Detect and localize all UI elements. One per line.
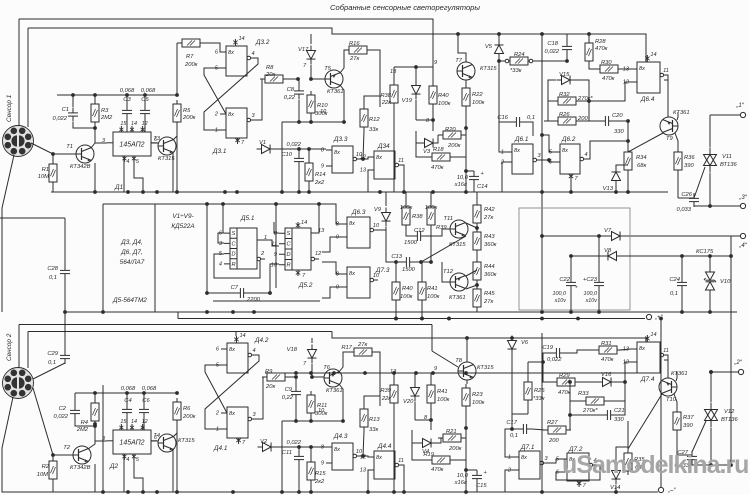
gate D7.3 bbox=[336, 267, 390, 298]
junction bbox=[680, 310, 684, 314]
junction bbox=[175, 93, 179, 97]
svg-text:х16в: х16в bbox=[454, 182, 467, 188]
wire bbox=[627, 174, 629, 192]
svg-text:0,22: 0,22 bbox=[284, 95, 296, 101]
wire bbox=[126, 393, 128, 405]
svg-text:КТ361: КТ361 bbox=[449, 295, 466, 301]
svg-text:14: 14 bbox=[131, 419, 137, 425]
wire bbox=[176, 424, 178, 492]
svg-text:8х: 8х bbox=[229, 411, 235, 417]
svg-text:10М: 10М bbox=[37, 472, 48, 478]
capacitor C21 bbox=[602, 408, 625, 423]
wire bbox=[364, 396, 380, 405]
wire bbox=[710, 428, 712, 465]
capacitor C22 bbox=[553, 277, 579, 304]
resistor R34 bbox=[624, 148, 647, 174]
svg-text:10: 10 bbox=[318, 408, 325, 414]
svg-text:8х: 8х bbox=[639, 346, 645, 352]
svg-text:Д4.1: Д4.1 bbox=[213, 445, 228, 452]
junction bbox=[414, 371, 418, 375]
svg-text:200к: 200к bbox=[182, 414, 196, 420]
svg-text:Т11: Т11 bbox=[443, 216, 453, 222]
wire bbox=[575, 80, 589, 101]
svg-text:V11: V11 bbox=[722, 154, 732, 160]
junction bbox=[540, 234, 544, 238]
terminal minus bbox=[658, 487, 676, 494]
svg-text:22к: 22к bbox=[381, 396, 391, 402]
junction bbox=[63, 310, 67, 314]
svg-text:14: 14 bbox=[239, 333, 245, 339]
wire bbox=[709, 173, 711, 206]
svg-text:Сенсор 1: Сенсор 1 bbox=[6, 94, 13, 122]
diode V1 bbox=[257, 140, 276, 154]
svg-text:С4: С4 bbox=[124, 398, 131, 404]
svg-text:С14: С14 bbox=[477, 184, 488, 190]
wire bbox=[442, 262, 450, 282]
junction bbox=[294, 375, 298, 379]
wire bbox=[395, 304, 397, 319]
junction bbox=[309, 445, 313, 449]
svg-text:470к: 470к bbox=[431, 467, 444, 473]
svg-text:8х: 8х bbox=[562, 148, 568, 154]
wire bbox=[426, 229, 450, 236]
svg-text:100к: 100к bbox=[472, 100, 485, 106]
wire bbox=[394, 66, 433, 68]
wire bbox=[569, 415, 571, 430]
junction bbox=[205, 291, 209, 295]
wire bbox=[64, 279, 66, 312]
wire bbox=[393, 107, 395, 192]
wire bbox=[621, 255, 731, 257]
svg-text:„1“: „1“ bbox=[735, 103, 744, 109]
junction bbox=[274, 202, 278, 206]
wire bbox=[339, 352, 349, 372]
svg-text:V20: V20 bbox=[403, 399, 414, 405]
transistor T5 bbox=[324, 66, 343, 95]
resistor R7 bbox=[177, 39, 205, 68]
sensor E2 bbox=[3, 368, 34, 399]
diode V16 bbox=[598, 372, 617, 387]
wire bbox=[0, 217, 65, 219]
wire bbox=[466, 285, 477, 289]
junction bbox=[510, 336, 514, 340]
svg-text:КТ315: КТ315 bbox=[477, 365, 494, 371]
terminal plus bbox=[646, 314, 663, 321]
svg-text:20к: 20к bbox=[265, 384, 275, 390]
wire bbox=[692, 462, 731, 465]
wire bbox=[257, 240, 279, 246]
svg-text:100к: 100к bbox=[438, 101, 451, 107]
svg-text:S: S bbox=[287, 231, 291, 237]
wire bbox=[103, 203, 319, 205]
svg-text:100к: 100к bbox=[400, 205, 413, 211]
resistor R17 bbox=[341, 342, 377, 356]
svg-text:4: 4 bbox=[584, 152, 587, 158]
wire bbox=[274, 222, 279, 233]
svg-text:10М: 10М bbox=[38, 174, 49, 180]
wire bbox=[430, 192, 432, 203]
wire bbox=[667, 80, 669, 117]
junction bbox=[447, 317, 451, 321]
svg-text:V13: V13 bbox=[603, 186, 614, 192]
diode V14 bbox=[610, 466, 621, 492]
junction bbox=[126, 490, 130, 494]
wire bbox=[18, 325, 20, 369]
capacitor C24 bbox=[669, 277, 687, 297]
junction bbox=[394, 317, 398, 321]
junction bbox=[366, 490, 370, 494]
svg-text:145АП2: 145АП2 bbox=[119, 440, 144, 447]
svg-text:R22: R22 bbox=[472, 92, 483, 98]
junction bbox=[709, 370, 713, 374]
resistor R39b bbox=[380, 381, 398, 407]
wire bbox=[28, 28, 646, 62]
wire bbox=[249, 292, 270, 294]
svg-text:R9: R9 bbox=[265, 369, 273, 375]
svg-text:0,022: 0,022 bbox=[52, 116, 67, 122]
wire bbox=[308, 185, 310, 192]
junction bbox=[464, 490, 468, 494]
wire bbox=[598, 291, 600, 312]
wire bbox=[53, 454, 76, 456]
wire bbox=[426, 229, 431, 236]
wire bbox=[27, 28, 29, 127]
junction bbox=[541, 360, 545, 364]
junction bbox=[101, 490, 105, 494]
wire bbox=[368, 170, 374, 192]
svg-text:200к: 200к bbox=[448, 446, 462, 452]
wire bbox=[505, 470, 513, 492]
svg-text:V6: V6 bbox=[521, 340, 529, 346]
wire bbox=[285, 376, 296, 378]
wire bbox=[405, 192, 407, 203]
wire bbox=[627, 121, 629, 152]
wire bbox=[31, 143, 80, 154]
svg-text:1500: 1500 bbox=[402, 267, 416, 273]
svg-text:КТ361: КТ361 bbox=[326, 388, 343, 394]
junction bbox=[708, 204, 712, 208]
chip D1 145АП2 bbox=[102, 121, 157, 191]
wire bbox=[416, 143, 427, 157]
svg-text:100к: 100к bbox=[400, 294, 413, 300]
wire bbox=[173, 128, 177, 140]
svg-text:14: 14 bbox=[301, 220, 307, 226]
svg-text:R27: R27 bbox=[547, 420, 558, 426]
resistor R4 bbox=[76, 399, 99, 433]
svg-text:100к: 100к bbox=[472, 400, 485, 406]
junction bbox=[680, 254, 684, 258]
svg-text:10,0: 10,0 bbox=[457, 473, 469, 479]
capacitor C29 bbox=[47, 350, 70, 366]
wire bbox=[178, 318, 645, 320]
svg-text:2к2: 2к2 bbox=[314, 479, 325, 485]
wire bbox=[19, 19, 433, 67]
capacitor C23 bbox=[583, 277, 604, 304]
wire node line bbox=[276, 446, 326, 448]
wire bbox=[102, 385, 104, 492]
junction bbox=[309, 77, 313, 81]
capacitor C11 bbox=[282, 440, 304, 465]
resistor R40b bbox=[392, 278, 413, 304]
svg-text:R8: R8 bbox=[266, 65, 274, 71]
junction bbox=[309, 371, 313, 375]
wire bbox=[393, 373, 395, 381]
gate D4.1 bbox=[213, 407, 256, 452]
wire bbox=[298, 447, 300, 451]
svg-text:R20: R20 bbox=[445, 127, 456, 133]
wire bbox=[74, 393, 76, 405]
wire bbox=[126, 418, 128, 430]
wire bbox=[172, 152, 174, 192]
svg-text:Т8: Т8 bbox=[455, 358, 463, 364]
wire bbox=[295, 400, 297, 421]
junction bbox=[431, 371, 435, 375]
wire bbox=[91, 128, 95, 148]
wire bbox=[256, 377, 263, 419]
wire bbox=[616, 165, 628, 171]
junction bbox=[307, 147, 311, 151]
svg-text:Д6.3: Д6.3 bbox=[351, 209, 366, 216]
wire bbox=[416, 120, 433, 131]
svg-text:R40: R40 bbox=[438, 93, 449, 99]
svg-text:R4: R4 bbox=[81, 420, 88, 426]
svg-text:0,022: 0,022 bbox=[53, 414, 68, 420]
junction bbox=[729, 254, 733, 258]
svg-text:27к: 27к bbox=[357, 342, 367, 348]
wire bbox=[476, 284, 478, 285]
wire bbox=[377, 352, 380, 406]
wire bbox=[581, 120, 600, 122]
resistor R30 bbox=[595, 60, 623, 82]
svg-text:Д6.1: Д6.1 bbox=[514, 136, 529, 143]
junction bbox=[143, 93, 147, 97]
wire bbox=[709, 256, 711, 272]
wire bbox=[415, 67, 417, 85]
svg-text:C24: C24 bbox=[669, 277, 680, 283]
resistor R38b bbox=[400, 203, 424, 229]
svg-text:V1÷V9-: V1÷V9- bbox=[172, 213, 193, 220]
resistor R9 bbox=[262, 369, 290, 390]
junction bbox=[126, 190, 130, 194]
wire bbox=[281, 122, 283, 192]
svg-text:0,1: 0,1 bbox=[49, 275, 57, 281]
svg-text:КС175: КС175 bbox=[696, 249, 714, 255]
svg-text:Д3.3: Д3.3 bbox=[333, 136, 348, 143]
svg-text:V12: V12 bbox=[724, 409, 735, 415]
svg-text:100к: 100к bbox=[425, 205, 438, 211]
wire bbox=[94, 126, 96, 128]
resistor R41c bbox=[427, 381, 450, 407]
transistor T8 bbox=[455, 358, 494, 380]
wire bbox=[598, 236, 600, 277]
junction bbox=[626, 139, 630, 143]
svg-text:КТ342В: КТ342В bbox=[70, 465, 91, 471]
gate D7.2 bbox=[556, 446, 597, 489]
svg-text:Д2: Д2 bbox=[109, 463, 118, 470]
capacitor C17 bbox=[506, 420, 532, 439]
svg-text:11: 11 bbox=[663, 68, 669, 74]
wire bbox=[64, 312, 66, 350]
resistor R16 bbox=[344, 41, 372, 62]
wire bbox=[218, 233, 224, 243]
wire bbox=[123, 454, 125, 492]
wire bbox=[265, 372, 640, 374]
svg-text:8х: 8х bbox=[376, 455, 382, 461]
junction bbox=[709, 370, 713, 374]
wire bbox=[709, 290, 711, 312]
svg-text:13: 13 bbox=[623, 67, 630, 73]
wire bbox=[505, 429, 513, 457]
flip-flop D5.2 bbox=[271, 220, 325, 289]
svg-text:R41: R41 bbox=[427, 286, 438, 292]
svg-text:Д4.4: Д4.4 bbox=[377, 443, 392, 450]
transistor T7 bbox=[455, 58, 497, 80]
resistor R40 bbox=[429, 82, 451, 108]
wire node line bbox=[275, 148, 326, 150]
wire bbox=[432, 351, 458, 367]
svg-text:V3: V3 bbox=[423, 149, 431, 155]
junction bbox=[587, 32, 591, 36]
wire bbox=[436, 438, 441, 443]
wire bbox=[298, 167, 300, 192]
svg-text:R29: R29 bbox=[559, 373, 570, 379]
svg-text:„–“: „–“ bbox=[667, 488, 676, 494]
terminal 1 bbox=[735, 103, 745, 118]
wire bbox=[94, 163, 96, 192]
wire bbox=[432, 108, 434, 120]
wire bbox=[368, 470, 374, 492]
wire bbox=[310, 65, 312, 79]
power unit box bbox=[519, 208, 630, 310]
svg-text:4: 4 bbox=[251, 51, 254, 57]
junction bbox=[175, 190, 179, 194]
junction bbox=[626, 119, 630, 123]
svg-text:2М2: 2М2 bbox=[76, 427, 89, 433]
wire bbox=[298, 79, 300, 86]
junction bbox=[297, 190, 301, 194]
svg-text:КТ361: КТ361 bbox=[671, 371, 688, 377]
wire bbox=[421, 262, 423, 278]
wire bbox=[677, 174, 679, 198]
svg-text:V17: V17 bbox=[298, 47, 309, 53]
wire bbox=[310, 117, 312, 122]
svg-text:C26: C26 bbox=[681, 192, 692, 198]
wire bbox=[235, 332, 237, 337]
resistor R19 bbox=[423, 452, 455, 473]
wire bbox=[144, 95, 146, 106]
svg-text:C13: C13 bbox=[391, 254, 402, 260]
junction bbox=[205, 202, 209, 206]
svg-text:R41: R41 bbox=[437, 389, 448, 395]
resistor R12 bbox=[360, 105, 380, 133]
svg-text:С10: С10 bbox=[281, 152, 292, 158]
wire bbox=[386, 230, 401, 262]
junction bbox=[547, 158, 551, 162]
junction bbox=[363, 371, 367, 375]
svg-text:Собранные сенсорные светорегул: Собранные сенсорные светорегуляторы bbox=[330, 3, 480, 12]
wire bbox=[512, 414, 528, 429]
svg-text:C29: C29 bbox=[47, 351, 58, 357]
wire bbox=[432, 67, 434, 82]
svg-text:145АП2: 145АП2 bbox=[119, 142, 144, 149]
wire bbox=[452, 459, 466, 461]
junction bbox=[708, 254, 712, 258]
svg-text:R15: R15 bbox=[315, 471, 326, 477]
wire bbox=[298, 465, 300, 492]
svg-text:8х: 8х bbox=[229, 347, 235, 353]
svg-text:10,0: 10,0 bbox=[457, 175, 469, 181]
wire cross-coupling bbox=[205, 355, 259, 429]
wire bbox=[399, 165, 404, 192]
wire bbox=[570, 256, 572, 277]
svg-text:0,1: 0,1 bbox=[48, 360, 56, 366]
wire bbox=[123, 156, 125, 192]
svg-text:Д6, Д7,: Д6, Д7, bbox=[120, 249, 143, 256]
svg-text:360к: 360к bbox=[484, 272, 497, 278]
wire triac gate bbox=[692, 421, 706, 452]
svg-text:R42: R42 bbox=[484, 207, 495, 213]
svg-text:0,1: 0,1 bbox=[670, 291, 678, 297]
wire bbox=[566, 34, 568, 41]
svg-text:13: 13 bbox=[623, 347, 630, 353]
junction bbox=[93, 422, 97, 426]
wire bbox=[205, 43, 226, 52]
svg-text:8х: 8х bbox=[228, 112, 234, 118]
wire bbox=[681, 291, 683, 312]
svg-text:11: 11 bbox=[663, 348, 669, 354]
wire bbox=[527, 404, 529, 414]
junction bbox=[464, 371, 468, 375]
svg-text:R: R bbox=[232, 262, 236, 268]
wire bbox=[619, 349, 631, 350]
capacitor C16 bbox=[497, 115, 535, 127]
svg-text:R40: R40 bbox=[402, 286, 413, 292]
junction bbox=[221, 202, 225, 206]
wire bbox=[415, 100, 417, 120]
svg-text:V14: V14 bbox=[610, 485, 620, 491]
wire bbox=[540, 160, 554, 162]
svg-text:R37: R37 bbox=[683, 415, 694, 421]
wire bbox=[176, 43, 178, 95]
wire bbox=[570, 382, 581, 401]
svg-text:Т9: Т9 bbox=[666, 136, 674, 142]
wire bbox=[660, 319, 662, 488]
resistor R31 bbox=[594, 341, 622, 363]
svg-text:C2: C2 bbox=[59, 406, 67, 412]
wire bbox=[270, 264, 279, 293]
capacitor C6 bbox=[139, 404, 149, 418]
wire bbox=[222, 204, 224, 233]
resistor R25 bbox=[524, 378, 545, 404]
resistor R1 bbox=[38, 160, 57, 186]
wire bbox=[52, 455, 54, 460]
resistor R20 bbox=[438, 127, 466, 149]
wire bbox=[556, 465, 600, 480]
wire bbox=[281, 421, 283, 492]
transistor T1 bbox=[66, 144, 94, 170]
junction bbox=[429, 260, 433, 264]
junction bbox=[294, 419, 298, 423]
junction bbox=[709, 463, 713, 467]
svg-text:Д4.2: Д4.2 bbox=[254, 337, 269, 344]
gate D7.4 bbox=[623, 332, 669, 383]
capacitor C4 bbox=[122, 404, 132, 418]
svg-text:22к: 22к bbox=[381, 100, 391, 106]
sensor E1 bbox=[3, 126, 34, 157]
wire bbox=[134, 454, 143, 492]
wire bbox=[322, 262, 341, 274]
svg-text:ВТ136: ВТ136 bbox=[720, 162, 737, 168]
